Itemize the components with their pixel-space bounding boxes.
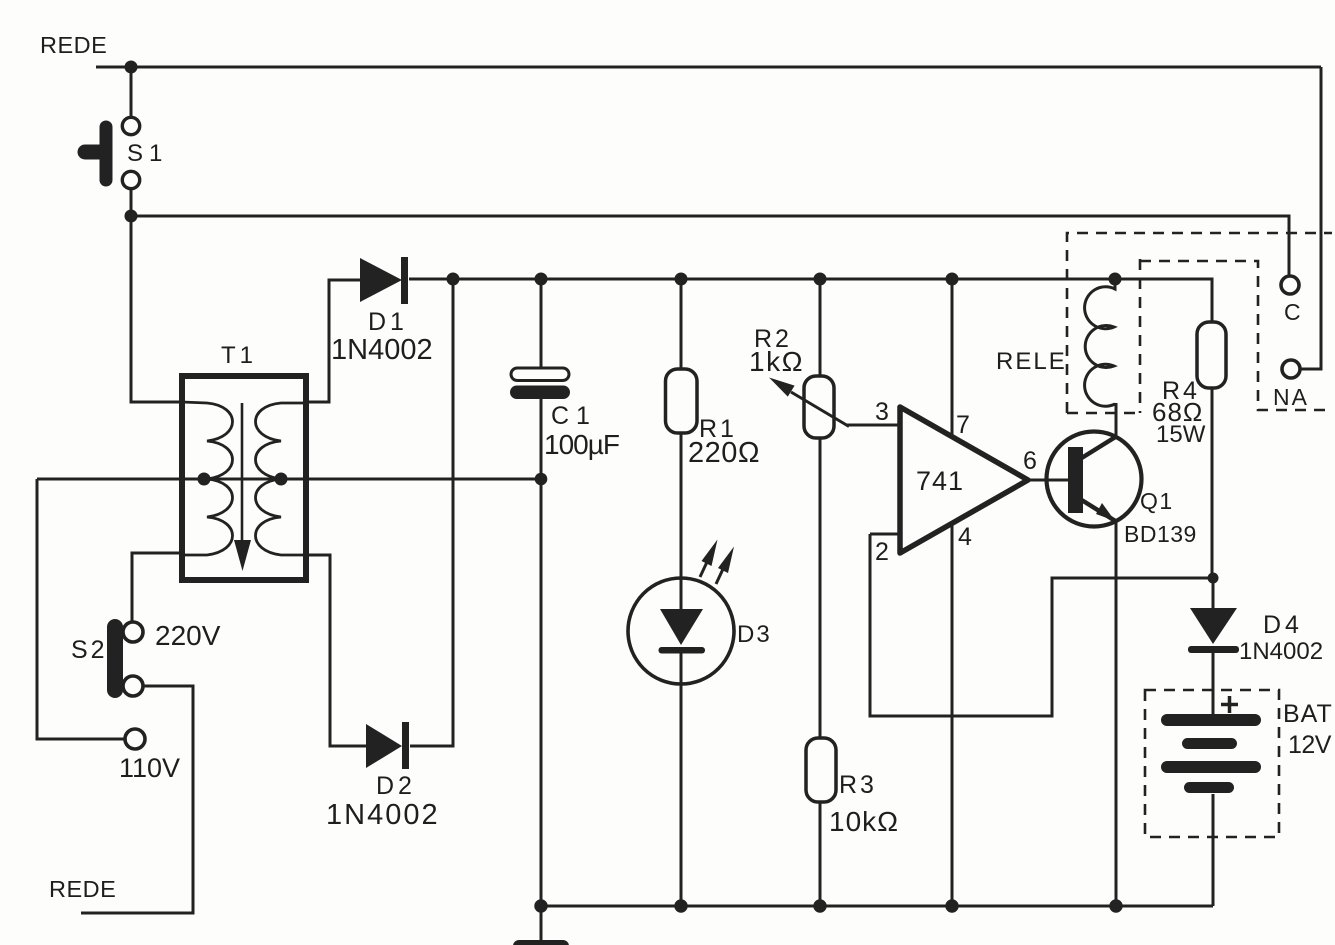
svg-text:BAT: BAT — [1283, 700, 1333, 728]
wire to transformer primary top — [131, 216, 182, 402]
svg-text:741: 741 — [916, 466, 964, 496]
node rail junction x453 — [447, 273, 460, 286]
switch S2 — [71, 620, 221, 696]
wire S2 to bottom REDE — [81, 686, 193, 913]
wire pin4 to bus — [951, 523, 954, 906]
wire feedback loop — [870, 534, 1213, 716]
svg-text:7: 7 — [956, 411, 970, 439]
contact C — [1281, 276, 1301, 325]
svg-text:D2: D2 — [376, 772, 416, 800]
wire D2 output branch — [410, 279, 453, 746]
svg-text:15W: 15W — [1156, 421, 1206, 448]
wire R2 wiper to pin3 — [846, 424, 900, 427]
resistor R1 — [666, 279, 761, 578]
svg-text:3: 3 — [875, 398, 889, 426]
wire secondary bottom to D2 anode — [306, 555, 366, 746]
wire right edge drop to NA — [1300, 67, 1321, 369]
node rail junction x681 — [675, 273, 688, 286]
wire +V rail — [409, 279, 1212, 322]
node C1 bottom junction — [535, 473, 548, 486]
wire secondary top to D1 — [306, 280, 360, 402]
diode D4 — [1188, 578, 1323, 714]
node T1 secondary tap — [275, 473, 288, 486]
transistor Q1 — [1028, 432, 1197, 548]
transformer T1 — [182, 342, 306, 580]
svg-text:D4: D4 — [1263, 611, 1303, 639]
svg-text:S1: S1 — [127, 140, 168, 167]
svg-text:D1: D1 — [368, 308, 408, 336]
wire LED to bus — [680, 684, 683, 906]
wire primary bottom to 220V — [132, 553, 182, 621]
node rail junction x820 — [814, 273, 827, 286]
svg-text:220V: 220V — [155, 620, 221, 651]
contact NA — [1273, 360, 1309, 410]
svg-text:10kΩ: 10kΩ — [829, 806, 899, 837]
svg-text:REDE: REDE — [49, 876, 116, 902]
svg-text:1N4002: 1N4002 — [331, 334, 433, 366]
node junction top-left — [125, 61, 138, 74]
node T1 primary tap — [198, 473, 211, 486]
relay coil RELE — [996, 279, 1115, 406]
node rail junction x1115 — [1109, 273, 1122, 286]
R4 region dashed outline — [1140, 261, 1332, 410]
wire ground bus — [541, 905, 1213, 908]
wire R2 to R3 — [819, 438, 822, 738]
node bus junction x820 — [813, 899, 826, 912]
wire pin7 to rail — [951, 279, 954, 437]
op-amp U1 741 — [875, 398, 1037, 566]
node bus junction x1116 — [1109, 899, 1122, 912]
node junction rail2 — [125, 210, 138, 223]
svg-text:T1: T1 — [221, 342, 257, 369]
node rail junction x541 — [535, 273, 548, 286]
capacitor C1 — [510, 279, 619, 479]
switch S1 — [85, 117, 168, 188]
svg-text:R3: R3 — [839, 771, 877, 799]
LED D3 — [628, 540, 772, 685]
wire C1 to ground bus — [540, 479, 543, 906]
svg-text:12V: 12V — [1288, 731, 1332, 759]
wire rail2 to C contact — [131, 216, 1289, 276]
wire 110V branch — [37, 479, 125, 739]
svg-text:Q1: Q1 — [1140, 488, 1174, 514]
svg-text:1kΩ: 1kΩ — [749, 346, 804, 377]
svg-text:C: C — [1284, 299, 1301, 325]
wire collector to coil — [1115, 403, 1118, 436]
node rail junction x952 — [946, 273, 959, 286]
ground — [513, 906, 569, 945]
diode D1 — [331, 257, 433, 366]
node bus junction x952 — [945, 899, 958, 912]
svg-text:100µF: 100µF — [544, 429, 619, 460]
relay dashed outline — [1067, 233, 1332, 413]
wire battery to bus — [1212, 794, 1215, 906]
svg-text:REDE: REDE — [40, 32, 107, 58]
svg-text:RELE: RELE — [996, 348, 1067, 375]
svg-text:1N4002: 1N4002 — [1239, 638, 1323, 665]
svg-text:2: 2 — [875, 538, 889, 566]
svg-text:220Ω: 220Ω — [688, 437, 760, 469]
svg-text:NA: NA — [1273, 384, 1309, 410]
wire R3 to bus — [819, 802, 822, 906]
svg-text:110V: 110V — [119, 753, 180, 783]
svg-text:6: 6 — [1023, 447, 1037, 475]
wire pin2 — [870, 533, 901, 536]
resistor R4 — [1152, 322, 1226, 578]
svg-text:BD139: BD139 — [1124, 521, 1197, 547]
potentiometer R2 — [749, 279, 849, 438]
wire emitter to bus — [1115, 522, 1118, 906]
battery BAT — [1145, 690, 1333, 837]
resistor R3 — [806, 738, 899, 837]
wire S1 bottom stub — [130, 189, 133, 216]
diode D2 — [326, 722, 440, 831]
wire center tap horizontal — [37, 478, 541, 481]
wire S1 top stub — [130, 67, 133, 117]
svg-text:C1: C1 — [551, 402, 597, 430]
svg-text:D3: D3 — [737, 621, 772, 648]
svg-text:S2: S2 — [71, 636, 108, 664]
contact 110V — [119, 729, 180, 783]
svg-text:1N4002: 1N4002 — [326, 799, 440, 831]
svg-text:4: 4 — [958, 523, 972, 551]
wire top rail — [96, 66, 1321, 69]
node bus junction x541 — [534, 899, 547, 912]
node bus junction x681 — [674, 899, 687, 912]
node feedback-emitter-R4 junction — [1208, 573, 1219, 584]
